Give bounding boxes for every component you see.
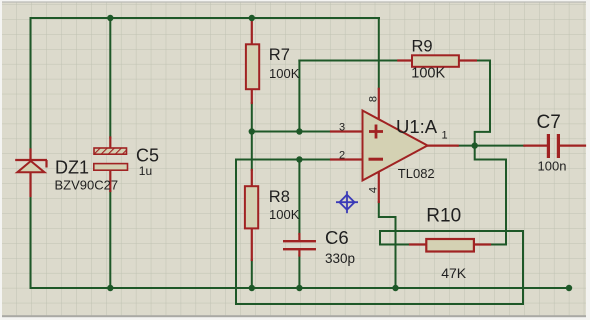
- junction node output: [472, 142, 478, 148]
- wire DZ1 top pin: [29, 150, 31, 161]
- wire top rail: [31, 17, 380, 19]
- wire U1 pin2 stub: [331, 158, 363, 160]
- junction node top C5: [107, 15, 113, 21]
- svg-text:2: 2: [339, 150, 345, 162]
- wire U1 pin8 stub: [378, 89, 380, 121]
- wire DZ1 bottom pin: [29, 172, 31, 196]
- capacitor C7: [547, 134, 560, 158]
- wire C5 bottom pin: [109, 170, 111, 191]
- wire R9 right horizontal: [476, 60, 490, 62]
- wire R8 top: [251, 132, 253, 171]
- wire feedback left vertical: [235, 160, 237, 305]
- wire R10 right link: [490, 244, 506, 246]
- wire C7 right pin: [560, 145, 585, 147]
- svg-text:100K: 100K: [411, 66, 445, 82]
- wire C6 bottom pin: [298, 250, 300, 256]
- svg-text:U1:A: U1:A: [396, 116, 438, 137]
- wire C5 branch upper: [109, 18, 111, 138]
- wire R9 right pin: [459, 59, 476, 61]
- svg-text:47K: 47K: [441, 265, 467, 281]
- wire R9 left horizontal: [299, 60, 398, 62]
- svg-text:100K: 100K: [269, 66, 300, 81]
- wire feedback top horizontal: [380, 230, 523, 232]
- zener diode DZ1: [15, 160, 47, 172]
- wire output jog: [475, 146, 506, 160]
- wire R7 bottom to node: [251, 103, 253, 132]
- wire U1 pin1 stub: [428, 145, 458, 147]
- svg-text:3: 3: [339, 122, 345, 134]
- wire output horizontal: [458, 145, 525, 147]
- wire R8 top pin: [251, 170, 253, 187]
- svg-text:100K: 100K: [269, 207, 300, 222]
- resistor R8: [245, 186, 258, 228]
- svg-text:R10: R10: [426, 206, 461, 227]
- wire R9 left vertical: [298, 61, 300, 132]
- wire C6 bottom: [298, 256, 300, 289]
- wire pin8 branch: [378, 18, 380, 89]
- wire R10 right pin: [474, 243, 490, 245]
- wire ground rail: [31, 287, 570, 289]
- svg-text:100n: 100n: [538, 158, 567, 173]
- svg-text:R8: R8: [269, 188, 290, 206]
- wire C5 top pin: [109, 138, 111, 149]
- wire C6 top: [298, 160, 300, 235]
- wire U1 pin4 stub: [378, 173, 380, 202]
- svg-text:C5: C5: [136, 145, 159, 165]
- resistor R9: [412, 55, 459, 67]
- wire U1 pin3 stub: [331, 130, 363, 132]
- junction node ground right end: [566, 285, 572, 291]
- svg-text:C7: C7: [537, 112, 561, 133]
- wire R10 left pin: [410, 243, 426, 245]
- wire R8 bottom pin: [251, 228, 253, 260]
- svg-text:BZV90C27: BZV90C27: [55, 178, 119, 193]
- junction node top R7: [249, 15, 255, 21]
- wire R10 left corner: [380, 231, 410, 245]
- wire pin3 input: [252, 131, 331, 133]
- wire output down vertical: [505, 160, 507, 245]
- wire R9 left pin: [398, 59, 412, 61]
- svg-text:1u: 1u: [139, 164, 152, 178]
- wire R8 bottom: [251, 260, 253, 288]
- wire pin4 branch: [379, 202, 396, 288]
- wire pin2 input: [236, 159, 331, 161]
- capacitor C6: [283, 240, 316, 250]
- junction node ground pin4: [392, 285, 398, 291]
- wire R7 bottom pin: [251, 89, 253, 103]
- capacitor C5: [94, 148, 128, 170]
- svg-text:C6: C6: [325, 227, 349, 248]
- wire C6 top pin: [298, 234, 300, 241]
- origin marker: [336, 191, 358, 213]
- junction node ground C6: [296, 285, 302, 291]
- wire feedback bottom rail: [236, 303, 523, 305]
- wire C5 branch lower: [109, 191, 111, 288]
- junction node ground C5: [107, 285, 113, 291]
- wire R9 right vertical: [475, 61, 490, 146]
- resistor R10: [426, 239, 474, 252]
- junction node ground R8: [249, 285, 255, 291]
- svg-text:330p: 330p: [325, 251, 355, 266]
- svg-text:TL082: TL082: [398, 166, 435, 181]
- svg-text:R7: R7: [269, 46, 290, 64]
- svg-text:4: 4: [368, 187, 380, 193]
- wire left vertical lower: [30, 196, 32, 288]
- svg-text:DZ1: DZ1: [55, 157, 89, 177]
- junction node pin2 C6: [296, 156, 302, 162]
- wire left vertical upper: [30, 18, 32, 150]
- junction node pin3 left: [249, 128, 255, 134]
- junction node pin3 R9: [296, 128, 302, 134]
- resistor R7: [246, 44, 259, 89]
- op-amp U1:A: [363, 111, 428, 181]
- svg-text:1: 1: [442, 130, 448, 142]
- wire R7 top pin: [251, 19, 253, 45]
- svg-text:8: 8: [368, 96, 380, 102]
- wire feedback right vertical: [522, 231, 524, 304]
- svg-text:R9: R9: [412, 38, 433, 56]
- wire C7 left pin: [524, 145, 547, 147]
